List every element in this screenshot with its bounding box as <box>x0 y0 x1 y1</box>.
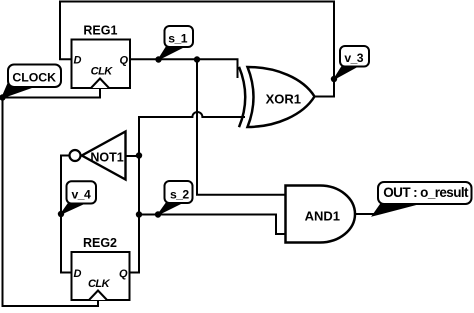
svg-text:Q: Q <box>119 268 128 280</box>
svg-text:XOR1: XOR1 <box>266 91 301 106</box>
flip-flop REG1 <box>72 24 131 89</box>
flip-flop REG2 <box>72 236 130 300</box>
svg-text:D: D <box>74 268 82 280</box>
wire feedback XOR1 out to REG1 D (net v_3) <box>60 2 334 97</box>
junction dot s_1 anchor <box>155 56 161 62</box>
wire REG1 Q to XOR1 top input (net s_1) <box>130 59 238 77</box>
wire s_2 to AND1 bottom input <box>139 215 286 235</box>
svg-text:AND1: AND1 <box>305 209 340 224</box>
svg-text:CLK: CLK <box>91 66 114 78</box>
junction dot s_2 anchor <box>155 211 161 217</box>
wire NOT1 output to REG2 D (net v_4) <box>61 156 72 273</box>
svg-text:CLOCK: CLOCK <box>12 70 56 84</box>
junction dot v_4 anchor <box>58 211 64 217</box>
label bubble OUT : o_result <box>373 182 472 216</box>
junction dot NOT1 input <box>136 152 142 158</box>
svg-text:s_1: s_1 <box>168 32 187 46</box>
wire s_2 to XOR1 bottom input with hop <box>139 112 244 117</box>
svg-text:REG2: REG2 <box>83 236 117 250</box>
label bubble v_4 <box>61 181 96 214</box>
svg-text:OUT : o_result: OUT : o_result <box>383 185 469 200</box>
inverter NOT1 <box>70 132 126 180</box>
svg-text:s_2: s_2 <box>170 187 189 201</box>
svg-text:v_3: v_3 <box>344 51 363 65</box>
junction dot CLOCK anchor <box>0 94 6 100</box>
wire CLOCK down left edge to REG2 clock <box>3 98 99 307</box>
label bubble CLOCK <box>2 65 61 99</box>
junction dot v_3 anchor <box>331 76 337 82</box>
wire CLOCK to REG1 clock <box>3 88 101 98</box>
wire s_2 to NOT1 input <box>126 155 140 157</box>
wire s_1 branch to AND1 top input <box>197 60 286 195</box>
junction dot at s_1/AND branch <box>194 56 200 62</box>
AND gate AND1 <box>286 186 356 243</box>
svg-text:D: D <box>74 54 82 66</box>
label bubble s_2 <box>158 181 193 215</box>
junction dot s_2/AND branch <box>136 211 142 217</box>
label bubble s_1 <box>158 26 193 60</box>
svg-text:NOT1: NOT1 <box>90 150 123 164</box>
svg-text:CLK: CLK <box>88 278 111 290</box>
svg-text:v_4: v_4 <box>72 188 91 202</box>
wire AND1 output to OUT <box>355 213 374 215</box>
XOR gate XOR1 <box>239 67 315 127</box>
label bubble v_3 <box>334 46 369 79</box>
svg-text:Q: Q <box>119 54 128 66</box>
wire REG2 Q up (net s_2) <box>130 117 140 273</box>
svg-text:REG1: REG1 <box>83 24 117 38</box>
